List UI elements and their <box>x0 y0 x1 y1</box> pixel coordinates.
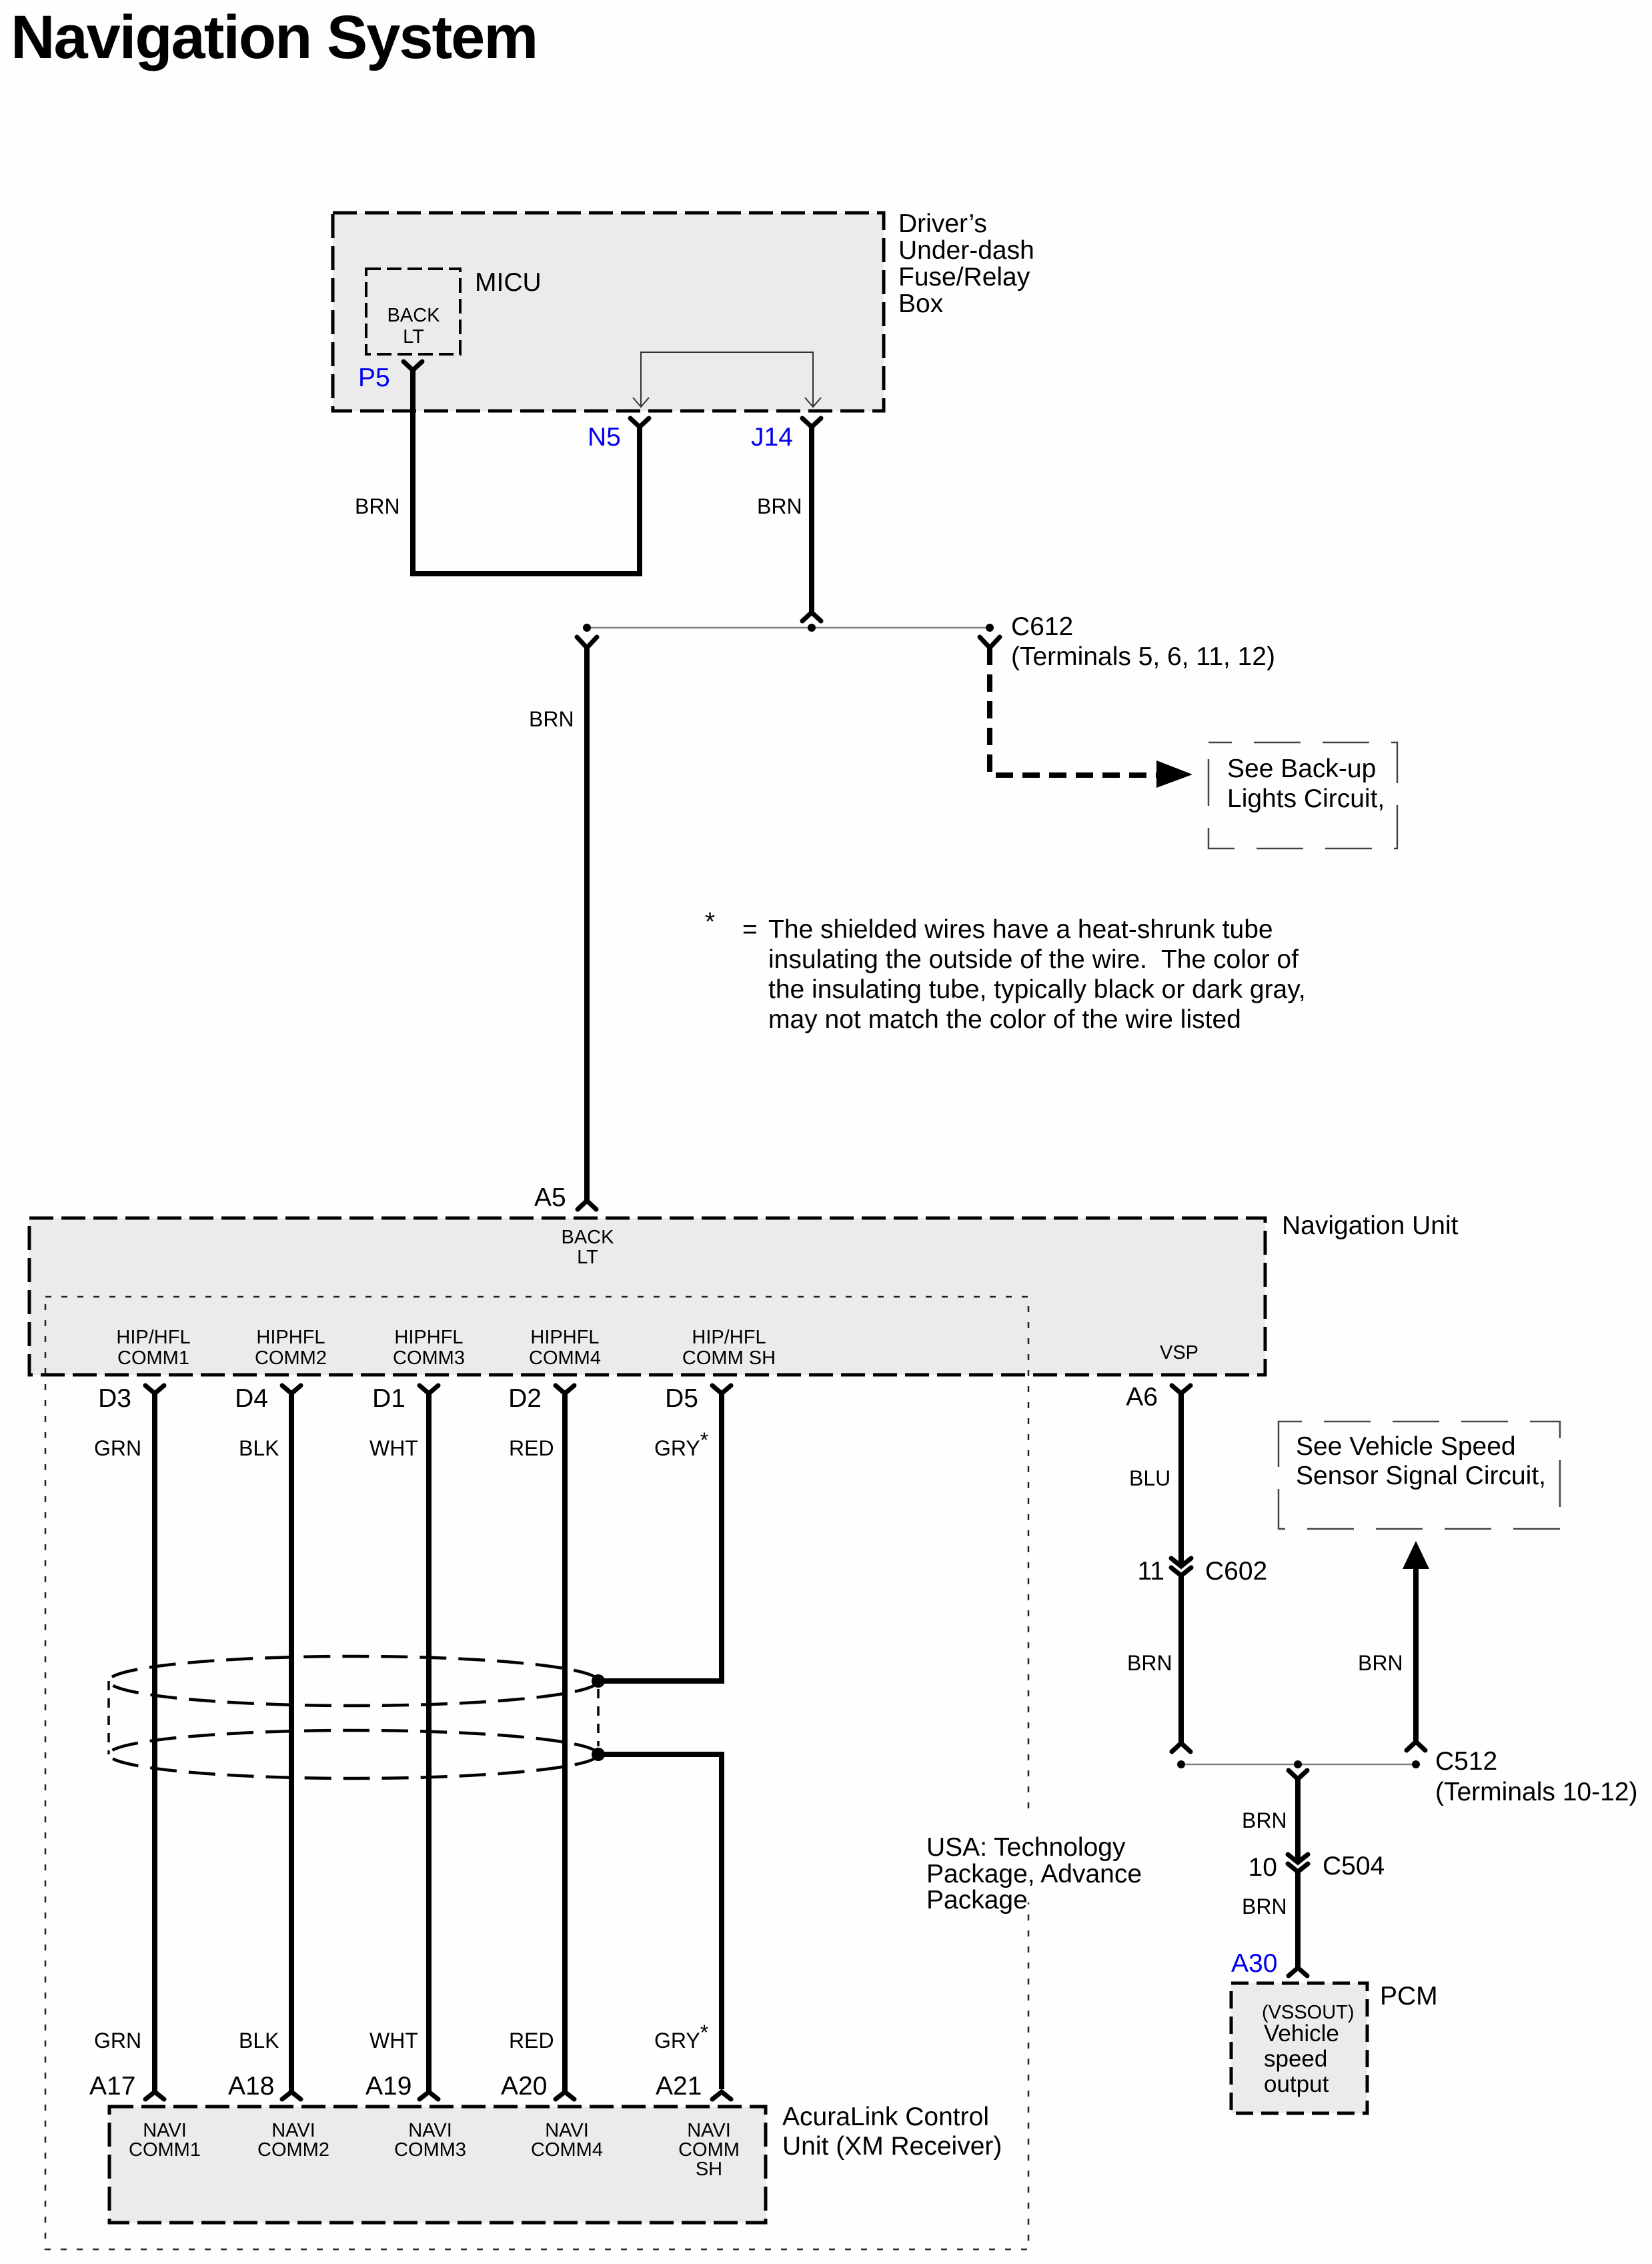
connector fork A17 <box>145 2092 164 2099</box>
svg-text:WHT: WHT <box>369 2029 418 2053</box>
svg-text:BACK: BACK <box>562 1227 615 1248</box>
connector fork above C512 right <box>1407 1742 1425 1750</box>
svg-text:NAVI: NAVI <box>687 2120 731 2141</box>
svg-text:Unit (XM Receiver): Unit (XM Receiver) <box>782 2132 1002 2161</box>
connector fork J14 <box>802 418 821 427</box>
svg-text:Box: Box <box>898 290 944 318</box>
svg-text:(Terminals 5, 6, 11, 12): (Terminals 5, 6, 11, 12) <box>1011 642 1275 671</box>
box See Back-up Lights Circuit <box>1208 742 1397 848</box>
svg-text:11: 11 <box>1138 1557 1165 1586</box>
shield ellipse top <box>109 1656 598 1706</box>
svg-text:See Vehicle Speed: See Vehicle Speed <box>1296 1432 1516 1461</box>
connector fork A20 <box>556 2092 574 2099</box>
connector fork A30 <box>1289 1968 1307 1976</box>
svg-text:speed: speed <box>1264 2046 1327 2072</box>
connector C612 fork <box>980 637 1000 648</box>
svg-text:D1: D1 <box>372 1384 405 1413</box>
shield left side dashes <box>107 1681 110 1754</box>
svg-text:D4: D4 <box>235 1384 268 1413</box>
svg-text:The shielded wires have a heat: The shielded wires have a heat-shrunk tu… <box>768 915 1273 944</box>
svg-text:C602: C602 <box>1205 1557 1267 1586</box>
dashed wire to back-up lights circuit <box>990 648 1159 775</box>
connector fork top of BRN trunk <box>577 637 597 648</box>
svg-text:D2: D2 <box>508 1384 542 1413</box>
wire GRN D3 <box>152 1393 157 2092</box>
svg-text:Lights Circuit,: Lights Circuit, <box>1227 784 1385 813</box>
svg-text:BLK: BLK <box>239 2029 279 2053</box>
connector fork D1 <box>420 1385 438 1393</box>
svg-text:A5: A5 <box>534 1183 566 1212</box>
junction dot <box>1294 1760 1302 1768</box>
connector fork A6 <box>1172 1385 1190 1393</box>
svg-text:WHT: WHT <box>369 1436 418 1460</box>
svg-text:BRN: BRN <box>529 707 574 731</box>
svg-text:BLU: BLU <box>1129 1466 1170 1490</box>
connector fork D5 <box>712 1385 731 1393</box>
wire RED D2 <box>562 1393 568 2092</box>
shield ellipse bottom <box>109 1730 598 1778</box>
svg-text:10: 10 <box>1249 1853 1277 1882</box>
svg-text:A30: A30 <box>1231 1949 1277 1978</box>
wire BLK D4 <box>289 1393 294 2092</box>
shield dot bottom <box>592 1748 605 1761</box>
relay BACK LT (MICU) box <box>366 269 460 354</box>
wire P5 to N5 (U shape) <box>413 370 640 574</box>
svg-text:BACK: BACK <box>387 305 441 326</box>
wire WHT D1 <box>426 1393 432 2092</box>
svg-text:A20: A20 <box>501 2072 547 2101</box>
connector fork D3 <box>145 1385 164 1393</box>
svg-text:NAVI: NAVI <box>143 2120 187 2141</box>
wire BRN to C504 <box>1295 1779 1301 1860</box>
svg-text:A21: A21 <box>656 2072 702 2101</box>
arrow wire up to vehicle speed circuit <box>1413 1568 1419 1741</box>
svg-text:J14: J14 <box>751 423 793 452</box>
label Driver's Under-dash Fuse/Relay Box <box>898 209 1034 318</box>
svg-text:C612: C612 <box>1011 612 1073 641</box>
PCM box <box>1231 1983 1367 2113</box>
wire J14 down <box>809 427 814 612</box>
svg-text:RED: RED <box>509 1436 554 1460</box>
svg-text:BRN: BRN <box>1242 1808 1287 1832</box>
svg-text:GRN: GRN <box>94 1436 141 1460</box>
svg-text:COMM SH: COMM SH <box>682 1347 776 1369</box>
svg-text:BRN: BRN <box>757 494 802 518</box>
svg-text:NAVI: NAVI <box>408 2120 452 2141</box>
svg-text:USA: Technology: USA: Technology <box>926 1833 1126 1862</box>
connector fork A18 <box>282 2092 301 2099</box>
svg-text:the insulating tube, typically: the insulating tube, typically black or … <box>768 975 1306 1004</box>
svg-text:GRN: GRN <box>94 2029 141 2053</box>
USA technology package dotted box <box>45 1297 1028 2249</box>
svg-text:VSP: VSP <box>1160 1342 1198 1363</box>
connector fork N5 <box>630 418 649 427</box>
svg-text:Fuse/Relay: Fuse/Relay <box>898 263 1030 292</box>
arrowhead up <box>1403 1541 1429 1569</box>
junction dot C612 <box>986 624 994 632</box>
connector fork A19 <box>420 2092 438 2099</box>
svg-text:D5: D5 <box>665 1384 698 1413</box>
svg-text:See Back-up: See Back-up <box>1227 754 1376 783</box>
svg-text:Sensor Signal Circuit,: Sensor Signal Circuit, <box>1296 1462 1546 1490</box>
svg-text:Vehicle: Vehicle <box>1264 2021 1339 2047</box>
wire shield to A21 <box>602 1754 722 2089</box>
navigation unit box <box>29 1218 1265 1375</box>
svg-text:Navigation Unit: Navigation Unit <box>1282 1211 1459 1240</box>
svg-text:A6: A6 <box>1126 1383 1158 1411</box>
svg-text:COMM3: COMM3 <box>393 1347 465 1369</box>
junction dot <box>808 624 816 632</box>
svg-text:NAVI: NAVI <box>271 2120 315 2141</box>
connector fork D2 <box>556 1385 574 1393</box>
svg-text:C504: C504 <box>1323 1852 1385 1880</box>
wire BLU A6 upper <box>1178 1393 1184 1564</box>
svg-text:COMM3: COMM3 <box>394 2139 466 2161</box>
svg-text:HIP/HFL: HIP/HFL <box>692 1327 766 1348</box>
svg-text:C512: C512 <box>1435 1747 1497 1776</box>
svg-text:insulating the outside of the: insulating the outside of the wire. The … <box>768 945 1299 974</box>
svg-text:Navigation System: Navigation System <box>11 3 537 71</box>
svg-text:D3: D3 <box>98 1384 131 1413</box>
junction dot <box>583 624 591 632</box>
svg-text:RED: RED <box>509 2029 554 2053</box>
svg-text:LT: LT <box>403 326 424 348</box>
shield dot top <box>592 1674 605 1688</box>
svg-text:BRN: BRN <box>355 494 400 518</box>
connector fork A21 <box>712 2092 731 2099</box>
svg-text:COMM4: COMM4 <box>531 2139 603 2161</box>
svg-text:LT: LT <box>577 1247 598 1268</box>
svg-text:Driver’s: Driver’s <box>898 209 987 238</box>
arrowhead <box>1156 760 1192 788</box>
svg-text:*: * <box>705 908 715 937</box>
svg-text:Package: Package <box>926 1886 1028 1914</box>
svg-text:=: = <box>742 915 758 944</box>
svg-text:HIPHFL: HIPHFL <box>530 1327 599 1348</box>
shield right dashed link <box>597 1689 600 1746</box>
connector fork below C512 <box>1289 1770 1307 1779</box>
label USA: Technology Package, Advance Package <box>920 1810 1106 1902</box>
connector fork D4 <box>282 1385 301 1393</box>
svg-text:COMM1: COMM1 <box>117 1347 189 1369</box>
svg-text:BRN: BRN <box>1127 1651 1172 1675</box>
svg-text:A19: A19 <box>365 2072 411 2101</box>
svg-text:may not match the color of the: may not match the color of the wire list… <box>768 1005 1241 1034</box>
svg-text:(Terminals 10-12): (Terminals 10-12) <box>1435 1778 1637 1806</box>
svg-text:Under-dash: Under-dash <box>898 236 1034 265</box>
node bus line to C612 <box>587 627 990 629</box>
junction dot <box>1412 1760 1420 1768</box>
svg-text:Package, Advance: Package, Advance <box>926 1860 1142 1888</box>
svg-text:HIPHFL: HIPHFL <box>256 1327 325 1348</box>
svg-text:COMM4: COMM4 <box>529 1347 601 1369</box>
svg-text:COMM1: COMM1 <box>129 2139 201 2161</box>
jumper thin wire with arrows N5 J14 <box>633 352 821 407</box>
svg-text:COMM: COMM <box>678 2139 740 2161</box>
wire BRN below C602 <box>1178 1576 1184 1742</box>
connector fork P5 <box>403 362 422 370</box>
svg-text:MICU: MICU <box>475 268 542 297</box>
connector fork above C512 <box>1172 1743 1190 1752</box>
svg-text:A17: A17 <box>89 2072 135 2101</box>
svg-text:output: output <box>1264 2071 1329 2097</box>
svg-text:SH: SH <box>696 2159 722 2180</box>
junction dot <box>1177 1760 1185 1768</box>
fuse/relay box (Driver's Under-dash Fuse/Relay Box) <box>333 213 884 411</box>
svg-text:COMM2: COMM2 <box>257 2139 329 2161</box>
svg-text:N5: N5 <box>588 423 621 452</box>
wire BRN trunk to A5 <box>584 648 590 1201</box>
box See Vehicle Speed Sensor Signal Circuit <box>1279 1422 1560 1529</box>
connector fork J14 bottom <box>802 612 821 621</box>
connector fork A5 <box>578 1201 596 1209</box>
svg-text:P5: P5 <box>358 364 390 392</box>
svg-text:BLK: BLK <box>239 1436 279 1460</box>
svg-text:HIPHFL: HIPHFL <box>394 1327 463 1348</box>
AcuraLink control unit box <box>109 2107 766 2223</box>
svg-text:HIP/HFL: HIP/HFL <box>116 1327 190 1348</box>
wire GRY D5 to shield <box>602 1393 722 1681</box>
svg-text:A18: A18 <box>228 2072 274 2101</box>
svg-text:NAVI: NAVI <box>545 2120 589 2141</box>
svg-text:BRN: BRN <box>1358 1651 1403 1675</box>
note text <box>705 908 1306 1034</box>
svg-text:PCM: PCM <box>1380 1982 1438 2011</box>
bus line C512 <box>1181 1764 1416 1766</box>
svg-text:COMM2: COMM2 <box>255 1347 327 1369</box>
svg-text:BRN: BRN <box>1242 1894 1287 1918</box>
wire BRN to PCM <box>1295 1872 1301 1968</box>
svg-text:AcuraLink Control: AcuraLink Control <box>782 2103 989 2131</box>
